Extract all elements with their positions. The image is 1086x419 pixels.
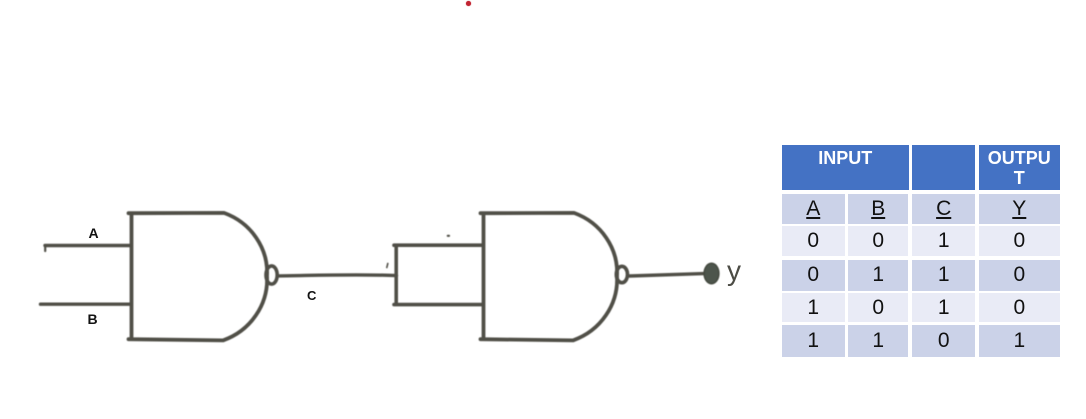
header INPUT (spans A,B)	[782, 145, 909, 190]
bubble U1 output	[266, 266, 277, 284]
node C junction rectangle (inputs tied)	[394, 245, 483, 304]
label A	[89, 225, 99, 241]
red dot speck	[466, 1, 471, 6]
header empty (C col)	[912, 145, 975, 190]
wire B (input to U1)	[41, 303, 132, 306]
wire Y (U2 out to node y)	[630, 274, 704, 276]
row 0 0 1 0	[782, 226, 845, 257]
label C	[307, 288, 316, 303]
row headers A B C Y	[782, 194, 845, 224]
label B	[88, 311, 98, 327]
header OUTPUT (Y col)	[979, 145, 1060, 190]
truth table	[782, 145, 1060, 357]
wire C (U1 out to U2 in)	[279, 275, 397, 276]
wire A (input to U1)	[45, 244, 131, 247]
row 0 1 1 0	[782, 260, 845, 291]
nand gate U1	[129, 213, 268, 341]
speck tick left of rectangle	[387, 264, 388, 268]
label y	[727, 255, 741, 287]
nand gate U2	[481, 213, 618, 341]
bubble U2 output	[616, 266, 627, 282]
speck above rectangle	[448, 235, 449, 237]
row 1 1 0 1	[782, 325, 845, 357]
row 1 0 1 0	[782, 293, 845, 322]
wire A start tick	[44, 246, 46, 251]
node y terminal dot	[704, 263, 719, 283]
